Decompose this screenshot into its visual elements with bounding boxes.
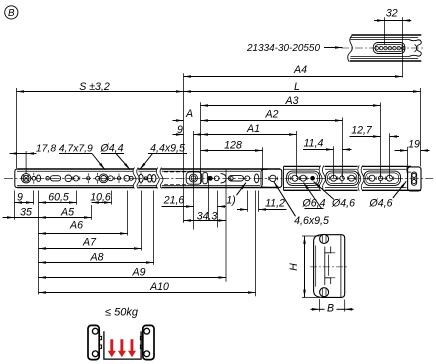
dimension A10	[39, 191, 256, 297]
dimension 34,3	[184, 176, 227, 228]
hole x68.3	[65, 175, 72, 182]
dimension 128	[201, 139, 263, 185]
svg-text:A5: A5	[60, 206, 74, 218]
inner channel profile	[325, 247, 331, 286]
hole ball-stud x103.5	[99, 174, 108, 183]
outer profile	[314, 235, 345, 298]
svg-text:4,6x9,5: 4,6x9,5	[294, 215, 329, 227]
label Ø4,6 second	[369, 181, 407, 209]
label Ø4,6 first	[314, 182, 356, 210]
hole oval x141	[139, 172, 143, 184]
svg-text:12,7: 12,7	[351, 125, 373, 137]
svg-text:A8: A8	[90, 251, 104, 263]
svg-text:≤ 50kg: ≤ 50kg	[105, 306, 139, 318]
svg-text:9: 9	[17, 191, 23, 203]
lower dimension 9	[15, 191, 34, 220]
centerline	[310, 266, 349, 268]
lower dimension 60,5	[39, 191, 77, 205]
cover frame with studs x186-226	[186, 172, 226, 184]
g1 stud solid	[310, 176, 315, 181]
group1 stadium	[287, 171, 320, 185]
hole spectacle x110.5	[107, 176, 114, 181]
dimension 12,7	[350, 125, 400, 179]
outer edges	[284, 165, 412, 167]
svg-text:60,5: 60,5	[48, 191, 69, 203]
hole spectacle x272.7	[268, 175, 277, 181]
small bracket piece	[203, 172, 208, 184]
g2 hole2 small	[340, 174, 344, 183]
right mounting bracket	[143, 325, 154, 359]
g2 hole3 spectacle	[347, 175, 355, 181]
hole small x119	[117, 174, 120, 183]
g2 hole1 spectacle	[329, 175, 337, 181]
dimension A6	[39, 191, 128, 236]
svg-text:A7: A7	[82, 237, 97, 249]
break squiggles left pair	[133, 168, 136, 189]
bottom edges	[350, 60, 422, 62]
hole small x33.8	[32, 173, 36, 184]
lower dimension 10,6	[90, 191, 111, 205]
g3 hole1 spectacle	[368, 175, 376, 181]
svg-text:19: 19	[408, 139, 420, 151]
red load arrows	[108, 339, 136, 357]
solid stud	[208, 176, 213, 181]
bottom ball	[320, 288, 329, 297]
dimension A5	[39, 191, 92, 295]
inner rail extended member	[284, 166, 422, 192]
dimension 35	[3, 206, 39, 218]
hole small x88.3	[87, 173, 90, 183]
top edges	[352, 34, 422, 36]
inner wall line	[315, 246, 317, 287]
detail view top rail (plan view)	[341, 35, 425, 62]
svg-text:21334-30-20550: 21334-30-20550	[246, 43, 320, 54]
open hole	[214, 176, 219, 181]
svg-text:B: B	[327, 302, 334, 314]
left end cap	[15, 169, 18, 188]
svg-text:Ø6,4: Ø6,4	[302, 198, 326, 210]
svg-text:Ø4,4: Ø4,4	[100, 143, 124, 155]
svg-text:17,8: 17,8	[36, 144, 56, 155]
keyhole slot x47-60	[46, 176, 61, 181]
svg-text:35: 35	[20, 206, 32, 218]
dimension A9	[39, 169, 227, 282]
break between g2 g3	[358, 166, 361, 192]
svg-text:10,6: 10,6	[90, 191, 111, 203]
outer edges	[18, 168, 281, 170]
svg-text:4,4x9,5: 4,4x9,5	[150, 143, 185, 155]
dimension A7	[39, 191, 142, 251]
svg-text:B: B	[8, 8, 15, 19]
g3 hole2 small	[378, 174, 382, 183]
svg-text:A1: A1	[246, 123, 260, 135]
hole small x97.6	[96, 173, 100, 184]
break squiggles right pair	[156, 168, 159, 189]
svg-text:A9: A9	[132, 267, 146, 279]
outer rail end cap open-left x277-282	[277, 169, 282, 188]
slot x254.5	[254, 174, 258, 183]
right end profile	[410, 40, 422, 56]
svg-text:Ø4,6: Ø4,6	[331, 198, 355, 210]
g3 hole3 spectacle	[385, 175, 393, 181]
svg-text:A: A	[185, 108, 193, 120]
load icon	[88, 306, 154, 359]
hole x126.8	[124, 175, 130, 181]
label 4,4x9,5	[140, 143, 187, 170]
main rail outer member	[15, 168, 280, 189]
hidden inner rail dashed edges	[164, 172, 187, 185]
dimension 11,4	[303, 137, 352, 178]
g1 hole1 spectacle	[291, 175, 299, 181]
dimension S ±3,2	[17, 81, 184, 169]
dimension A3	[201, 95, 381, 184]
latch bracket open-right x262-269	[261, 169, 268, 187]
hole x131	[129, 176, 133, 180]
dimension A4	[184, 64, 403, 223]
dimension 19	[395, 139, 430, 178]
svg-text:11,2: 11,2	[265, 198, 285, 210]
svg-text:Ø4,6: Ø4,6	[369, 198, 393, 210]
end piece with vertical slot	[407, 166, 421, 191]
g1 hole2 spectacle	[299, 175, 307, 181]
slot outline	[373, 43, 405, 54]
hole spectacle x76	[72, 176, 80, 181]
top ball	[320, 234, 329, 243]
group2 stadium	[326, 171, 359, 185]
label Ø6,4	[302, 183, 326, 210]
end view cross-section	[288, 234, 354, 314]
dimension 9 (upper)	[173, 124, 201, 230]
left mounting bracket	[88, 325, 99, 359]
outer rail holes	[21, 172, 156, 184]
dimension 21,6	[162, 195, 226, 207]
svg-text:A6: A6	[69, 220, 83, 232]
hole oval x153.8	[152, 175, 156, 183]
hole oval x149.6	[148, 175, 152, 183]
group3 stadium	[364, 171, 401, 185]
label 4,6x9,5	[274, 182, 329, 227]
svg-text:11,4: 11,4	[304, 137, 324, 149]
dimension A1	[201, 123, 297, 177]
svg-text:32: 32	[386, 8, 398, 20]
dimension A8	[39, 191, 154, 265]
drawer box	[104, 331, 141, 359]
hole x247	[245, 176, 250, 181]
footnote 1)	[226, 183, 246, 207]
hole ball-stud x26	[21, 174, 30, 183]
dimension A (left small)	[173, 108, 194, 120]
dimension A2	[201, 108, 343, 178]
break between g1 g2	[319, 166, 322, 192]
part number label 21334-30-20550	[246, 43, 342, 54]
screw holes in slot	[375, 46, 405, 50]
hole slot x38.6	[37, 175, 41, 182]
label 4,7x7,9	[59, 144, 105, 170]
label Ø4,4	[100, 143, 130, 170]
closing end of cover slot	[221, 174, 227, 183]
svg-text:H: H	[288, 263, 300, 271]
svg-text:A4: A4	[293, 64, 307, 76]
dimension L	[184, 81, 421, 167]
svg-text:21,6: 21,6	[163, 195, 185, 207]
break line left	[348, 35, 353, 62]
bullet slot x228-243	[228, 176, 243, 181]
left edge of inner rail	[283, 166, 285, 190]
right plate inner line	[340, 235, 342, 297]
dimension 32	[374, 8, 411, 78]
main rail centerline	[4, 177, 433, 179]
label 17,8	[10, 144, 57, 174]
svg-text:1): 1)	[226, 194, 235, 206]
svg-text:A10: A10	[149, 281, 169, 293]
dimension 11,2	[237, 191, 287, 212]
centerline of detail	[341, 47, 425, 49]
view label B circle	[5, 6, 18, 19]
hole small x145.8	[144, 177, 147, 180]
svg-text:A2: A2	[265, 108, 279, 120]
svg-text:128: 128	[224, 139, 242, 151]
